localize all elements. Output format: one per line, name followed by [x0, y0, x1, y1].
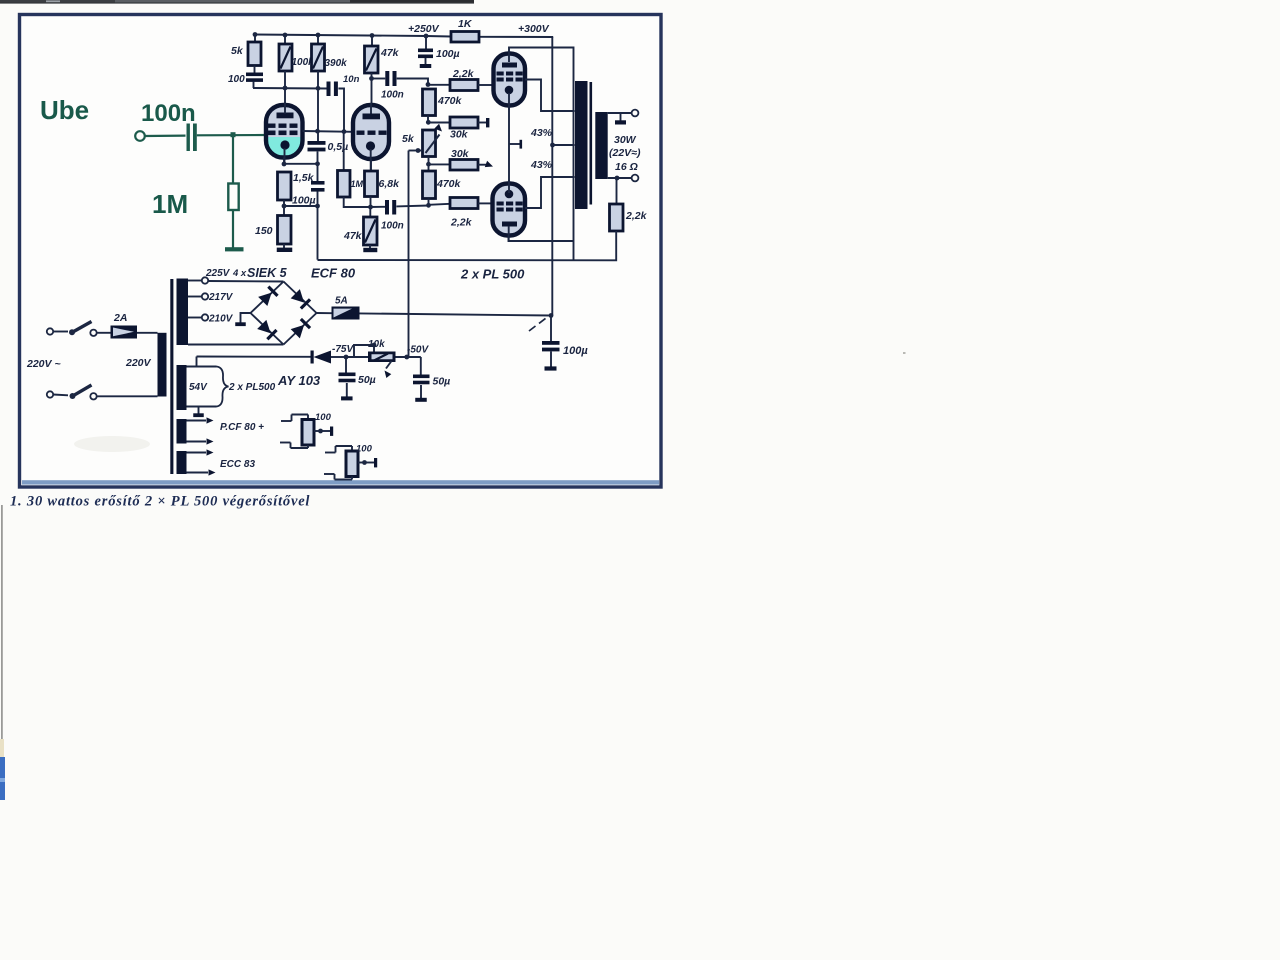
label 2,2k upper — [452, 68, 475, 80]
wire 1M bottom corner — [344, 197, 371, 207]
wire wiper to bias line — [409, 150, 423, 152]
node rail 5k — [253, 32, 258, 37]
label 470k lower — [436, 178, 462, 190]
label 16ohm — [615, 161, 638, 173]
wire lower anode — [525, 177, 575, 208]
wire 5k to cap100 — [254, 66, 256, 73]
label 10k — [368, 339, 385, 350]
label 2,2k lower — [450, 217, 473, 229]
label 10n — [343, 74, 360, 85]
wire switch to fuse — [97, 332, 111, 334]
label 1M grid — [351, 179, 364, 189]
label 5A — [335, 296, 348, 307]
wire AY103 to -75V — [331, 356, 346, 358]
node 47k coupling — [369, 76, 374, 81]
wire grid2 vertical — [343, 132, 345, 171]
wire input to cap — [145, 135, 186, 138]
wire 470k lower stub — [428, 199, 430, 206]
ground secondary — [615, 113, 626, 125]
label 30k lower — [451, 148, 470, 160]
wire node to 30k upper — [428, 122, 450, 124]
wire 390k top stub — [317, 35, 319, 44]
svg-text:+250V: +250V — [408, 23, 440, 35]
node bus 390k — [316, 86, 321, 91]
svg-text:SIEK 5: SIEK 5 — [247, 266, 288, 280]
label 2A — [113, 312, 127, 324]
capacitor 100n coupling lower — [385, 200, 396, 215]
wire B+ rail 250V — [255, 35, 451, 37]
resistor 1K — [451, 32, 479, 43]
label 100n input — [141, 100, 196, 127]
transformer HV secondary bar — [177, 279, 189, 346]
resistor 6,8k — [365, 171, 378, 197]
node 5k wiper — [416, 148, 421, 153]
ground 47k tail — [363, 245, 377, 252]
label 30W — [614, 134, 637, 146]
wire fil1 top — [187, 417, 214, 423]
resistor 2,2k upper — [450, 80, 478, 91]
wire tube1 plate out — [303, 130, 354, 133]
wire top cap link — [509, 48, 574, 260]
node 390k coupling — [315, 129, 320, 134]
ground bridge — [235, 313, 250, 326]
screen tap bar — [509, 140, 522, 149]
wire 5k pot bottom — [428, 157, 430, 172]
svg-text:30k: 30k — [451, 148, 470, 160]
pot 10k arrow — [382, 361, 391, 378]
wire 1M to ground — [232, 210, 234, 248]
transformer mains core — [170, 279, 173, 474]
svg-text:47k: 47k — [343, 230, 363, 242]
ground reservoir — [545, 366, 557, 370]
svg-text:P.CF 80 +: P.CF 80 + — [220, 422, 264, 433]
svg-text:470k: 470k — [437, 95, 463, 107]
label AY 103 — [277, 373, 321, 388]
svg-text:217V: 217V — [208, 292, 234, 303]
transformer mains primary bar — [158, 333, 167, 397]
switch upper — [53, 322, 97, 336]
label 1M input — [152, 189, 188, 219]
wire 54V top — [187, 366, 217, 368]
wire bridge to fuse 5A — [317, 312, 332, 314]
tube V2 ECF80 pentode — [353, 105, 389, 159]
wire tube1 cathode stub — [283, 158, 285, 165]
label 210V — [208, 314, 234, 325]
svg-text:30W: 30W — [614, 134, 637, 146]
transformer 54V winding bar — [177, 365, 187, 410]
label 100 hum1 — [315, 412, 332, 423]
wire feedback drop — [317, 206, 319, 260]
wire -75V into pot — [346, 356, 368, 358]
node 10k wiper — [372, 343, 377, 348]
svg-text:2,2k: 2,2k — [452, 68, 475, 80]
wire 1,5k to 150 — [283, 200, 285, 216]
window title-bar fragment top edge — [0, 0, 474, 4]
svg-text:210V: 210V — [208, 314, 234, 325]
label 1,5k — [293, 172, 315, 184]
svg-text:2,2k: 2,2k — [625, 210, 648, 222]
node B+ reservoir — [549, 313, 554, 318]
label 390k — [325, 58, 348, 69]
svg-text:100: 100 — [315, 412, 332, 423]
ground 50u first — [341, 396, 353, 400]
wire tube1 anode stub overlay — [284, 103, 286, 114]
hum balance 100 ECC — [324, 446, 377, 480]
svg-text:-50V: -50V — [407, 345, 429, 356]
wire upper anode — [525, 80, 575, 112]
resistor 390k — [312, 44, 325, 71]
svg-text:6,8k: 6,8k — [379, 178, 401, 190]
label 47k tail — [343, 230, 363, 242]
wire fil2 top — [187, 449, 214, 455]
svg-text:5k: 5k — [402, 133, 415, 145]
capacitor 100n input — [187, 124, 197, 152]
label 43 percent upper — [530, 127, 553, 139]
svg-text:100n: 100n — [381, 221, 404, 232]
wire 250V to cap — [425, 36, 427, 49]
resistor 30k lower — [450, 160, 478, 171]
left edge scan line — [1, 505, 3, 760]
wire pot to -50V — [396, 356, 421, 358]
label SIEK 5 — [247, 266, 288, 280]
wire fil2 bottom — [187, 469, 216, 475]
wire cathode link2 — [284, 205, 318, 207]
resistor 2,2k feedback — [610, 204, 624, 231]
resistor 5k — [248, 42, 261, 66]
capacitor 100n coupling upper — [385, 71, 396, 86]
hum balance 100 PCF — [280, 415, 333, 449]
svg-text:100µ: 100µ — [563, 345, 588, 357]
svg-text:ECC 83: ECC 83 — [220, 459, 255, 470]
wire 150 to ground — [283, 244, 285, 248]
terminal mains upper left — [47, 328, 53, 334]
svg-text:100: 100 — [356, 444, 373, 455]
label 54V — [189, 382, 208, 393]
svg-text:220V ~: 220V ~ — [26, 358, 61, 370]
svg-text:43%: 43% — [530, 159, 553, 171]
transformer OPT primary bar — [575, 81, 588, 209]
label ECF 80 — [311, 266, 356, 281]
wire 47k top stub — [371, 36, 373, 47]
label 30k upper — [450, 129, 469, 141]
wire 54V tap stub — [196, 357, 198, 367]
wire switch lower to primary — [97, 395, 158, 397]
ground 50u second — [415, 398, 427, 402]
wire 10n to corner — [338, 89, 344, 132]
label 4x — [232, 268, 247, 279]
fuse 5A — [332, 307, 360, 320]
wire centre tap — [553, 144, 575, 146]
resistor 100k — [279, 44, 292, 71]
node cathode2 left — [282, 204, 287, 209]
wire tube2 cathode stub — [370, 160, 372, 172]
svg-text:-75V: -75V — [332, 344, 354, 355]
label +300V — [518, 23, 550, 35]
svg-text:470k: 470k — [436, 178, 462, 190]
wire 100k top stub — [284, 35, 286, 44]
svg-text:50µ: 50µ — [358, 374, 376, 386]
label 225V — [205, 268, 231, 279]
wire 100k to tube1 anode — [284, 71, 286, 112]
svg-text:225V: 225V — [205, 268, 231, 279]
schematic border frame — [20, 15, 662, 488]
label 6,8k — [379, 178, 401, 190]
wire 225V to bridge — [208, 280, 283, 283]
wire HV bottom to bridge — [188, 344, 284, 346]
capacitor 100u cathode — [311, 181, 325, 192]
wire bias feed vertical — [408, 151, 410, 358]
wire tap 210V — [188, 317, 202, 319]
wire 54V to AY103 — [197, 356, 311, 358]
node 6,8k bottom — [368, 205, 373, 210]
terminal 210V — [202, 314, 208, 320]
node primary centre tap — [550, 143, 555, 148]
svg-text:10k: 10k — [368, 339, 385, 350]
node 30k upper — [426, 120, 431, 125]
svg-text:10n: 10n — [343, 74, 360, 85]
wire PL500 interstage — [508, 106, 510, 184]
label 470k upper — [437, 95, 463, 107]
wire lower tube bottom — [509, 236, 574, 242]
node -50V — [404, 355, 409, 360]
left edge cream fragment — [0, 739, 4, 757]
capacitor 100 decoupling — [246, 73, 263, 82]
node rail 47k — [370, 33, 375, 38]
wire cap to grid node — [197, 134, 266, 137]
arrow 30k lower tap — [485, 161, 494, 170]
node input-grid junction — [231, 132, 236, 137]
svg-text:ECF 80: ECF 80 — [311, 266, 356, 281]
label -50V — [407, 345, 429, 356]
label 220V mains — [26, 358, 61, 370]
node feedback takeoff — [615, 176, 620, 181]
wire 6,8k stub — [370, 197, 372, 208]
wire 100n to 470k top — [397, 79, 428, 85]
label 2,2k feedback — [625, 210, 648, 222]
svg-text:2A: 2A — [113, 312, 127, 324]
wire tube2 cathode stub overlay — [370, 149, 372, 171]
capacitor 50u first — [339, 357, 356, 397]
fuse 2A — [111, 326, 138, 339]
transformer fil winding PCF bar — [177, 419, 187, 444]
label 100u cathode — [292, 195, 316, 207]
wire -75V step — [354, 345, 374, 357]
svg-text:Ube: Ube — [40, 95, 89, 125]
label 1K — [458, 18, 473, 30]
resistor 1,5k — [278, 172, 292, 200]
capacitor 0,5u — [308, 141, 326, 151]
wire node to 2k2 upper — [428, 84, 450, 86]
label 5k hum pot — [402, 133, 415, 145]
wire secondary top — [608, 112, 631, 114]
transformer OPT core — [590, 82, 593, 205]
node 470k top — [426, 82, 431, 87]
svg-text:5k: 5k — [231, 45, 244, 57]
node 30k lower — [426, 162, 431, 167]
tube V1 ECF80 triode — [266, 105, 303, 158]
node cathode1 right — [315, 161, 320, 166]
svg-text:1M: 1M — [152, 189, 188, 219]
wire 100u stub bottom — [317, 192, 319, 207]
node cathode2 right — [315, 204, 320, 209]
wire rail 1K to 300V corner — [479, 36, 553, 38]
transformer OPT secondary bar — [595, 112, 607, 179]
capacitor 100u reservoir — [542, 316, 560, 367]
tube V4 PL500 lower — [493, 184, 526, 236]
resistor 1M input — [228, 184, 238, 211]
wire 47k tail stub — [369, 207, 371, 217]
wire 5k top stub — [254, 35, 256, 43]
resistor 47k tail — [364, 217, 378, 245]
wire 2k2 to PL500 upper grid — [478, 84, 494, 86]
terminal 225V — [202, 277, 208, 283]
wire 30k lower tap — [478, 164, 487, 166]
capacitor 100u supply — [418, 49, 433, 65]
wire tube3 cathode stub overlay — [508, 93, 510, 110]
label 220V primary — [125, 357, 152, 369]
label 47k plate — [380, 47, 400, 59]
ground 100u supply — [420, 64, 432, 68]
svg-text:150: 150 — [255, 225, 273, 237]
svg-text:AY 103: AY 103 — [277, 373, 321, 388]
wire to 2,2k fb — [616, 178, 618, 204]
transformer fil winding ECC bar — [177, 451, 187, 474]
resistor 2,2k lower — [450, 198, 478, 209]
capacitor 10n — [327, 82, 338, 97]
label +250V — [408, 23, 440, 35]
label 100u reservoir — [563, 345, 588, 357]
label 50u second — [433, 376, 451, 388]
node -75V — [344, 355, 349, 360]
svg-text:100µ: 100µ — [292, 195, 316, 207]
label 50u first — [358, 374, 376, 386]
terminal bar 30k upper — [486, 118, 489, 127]
label 100u supply — [436, 48, 460, 60]
resistor 470k lower — [423, 171, 436, 199]
wire tube1 cathode stub overlay — [284, 148, 286, 164]
label -75V — [332, 344, 354, 355]
node grid2 coupling — [342, 129, 347, 134]
tube V3 PL500 upper — [494, 54, 526, 106]
pot 5k wiper arrow — [426, 124, 445, 153]
resistor 150 — [278, 216, 292, 245]
svg-text:43%: 43% — [530, 127, 553, 139]
wire 470k upper stub — [427, 116, 429, 123]
wire 390k down to node — [317, 71, 319, 141]
node bus 100k — [283, 86, 288, 91]
label Ube — [40, 95, 89, 125]
wire node to 30k lower — [429, 163, 451, 165]
diode AY103 — [311, 351, 332, 364]
svg-text:220V: 220V — [125, 357, 152, 369]
label 5k — [231, 45, 244, 57]
resistor 5k hum pot — [423, 130, 436, 157]
pot 10k — [368, 352, 396, 363]
node rail 100k — [283, 33, 288, 38]
label 100 hum2 — [356, 444, 373, 455]
terminal 217V — [202, 293, 208, 299]
wire feedback return — [318, 231, 617, 260]
wire tap 225V — [188, 280, 202, 282]
label 2x PL500 winding — [228, 382, 276, 393]
svg-text:2 x PL500: 2 x PL500 — [228, 382, 276, 393]
input terminal Ube — [135, 131, 145, 141]
wire 47k to 100n — [372, 78, 386, 80]
annotation tick — [529, 318, 546, 331]
svg-text:390k: 390k — [325, 58, 348, 69]
label 217V — [208, 292, 234, 303]
label ECC83 — [220, 459, 255, 470]
svg-text:1K: 1K — [458, 18, 473, 30]
resistor 47k plate — [365, 46, 379, 73]
resistor 1M grid — [338, 171, 351, 198]
scan smudge — [74, 436, 150, 452]
wire tube4 top stub overlay — [508, 180, 510, 193]
label 100 cap — [228, 74, 245, 85]
svg-text:54V: 54V — [189, 382, 208, 393]
svg-text:47k: 47k — [380, 47, 400, 59]
svg-text:4 x: 4 x — [232, 268, 247, 279]
wire to 100n lower — [371, 206, 386, 208]
wire node to 2k2 lower — [429, 204, 451, 205]
ground input 1M — [225, 247, 244, 251]
caption figure — [10, 494, 310, 510]
label 0,5u — [328, 141, 349, 153]
brace 54V winding — [217, 367, 229, 407]
wire screen bus — [253, 87, 327, 90]
svg-text:1M: 1M — [351, 179, 364, 189]
resistor 470k upper — [423, 89, 436, 116]
label 22V — [609, 147, 641, 159]
svg-text:100n: 100n — [381, 90, 404, 101]
label 2x PL 500 — [460, 267, 525, 282]
svg-text:1. 30 wattos erősítő 2 × PL: 1. 30 wattos erősítő 2 × PL 500 végerősí… — [10, 494, 310, 510]
node rail +250V — [424, 34, 429, 39]
wire 47k to tube2 — [371, 73, 373, 112]
wire node down to 1M — [232, 136, 234, 184]
terminal output top — [632, 110, 639, 117]
switch lower — [53, 385, 97, 399]
wire 54V bottom — [187, 406, 217, 408]
wire wiper stub — [373, 345, 375, 352]
node rail 390k — [316, 33, 321, 38]
svg-text:50µ: 50µ — [433, 376, 451, 388]
wire cathode link — [284, 163, 318, 165]
wire 05u to cathode node — [317, 152, 319, 164]
terminal mains lower left — [47, 391, 53, 397]
capacitor 50u second — [413, 357, 430, 398]
resistor 30k upper — [450, 117, 478, 128]
svg-text:(22V≈): (22V≈) — [609, 147, 641, 159]
svg-text:2,2k: 2,2k — [450, 217, 473, 229]
svg-text:2 x PL 500: 2 x PL 500 — [460, 267, 525, 282]
label 43 percent lower — [530, 159, 553, 171]
svg-text:100: 100 — [228, 74, 245, 85]
svg-text:16 Ω: 16 Ω — [615, 161, 638, 173]
svg-text:100µ: 100µ — [436, 48, 460, 60]
svg-text:30k: 30k — [450, 129, 469, 141]
wire 5A to reservoir — [360, 313, 552, 315]
wire B+ 300V drop — [551, 37, 553, 316]
wire cap100 to bus — [253, 82, 255, 89]
bridge rectifier 4x SIEK5 — [251, 282, 317, 345]
node grid lower — [426, 203, 431, 208]
left edge blue fragment — [0, 757, 5, 800]
wire fil1 bottom — [187, 438, 214, 444]
stray dot — [903, 352, 906, 354]
label 100n upper — [381, 90, 404, 101]
ground cathode — [277, 248, 293, 252]
